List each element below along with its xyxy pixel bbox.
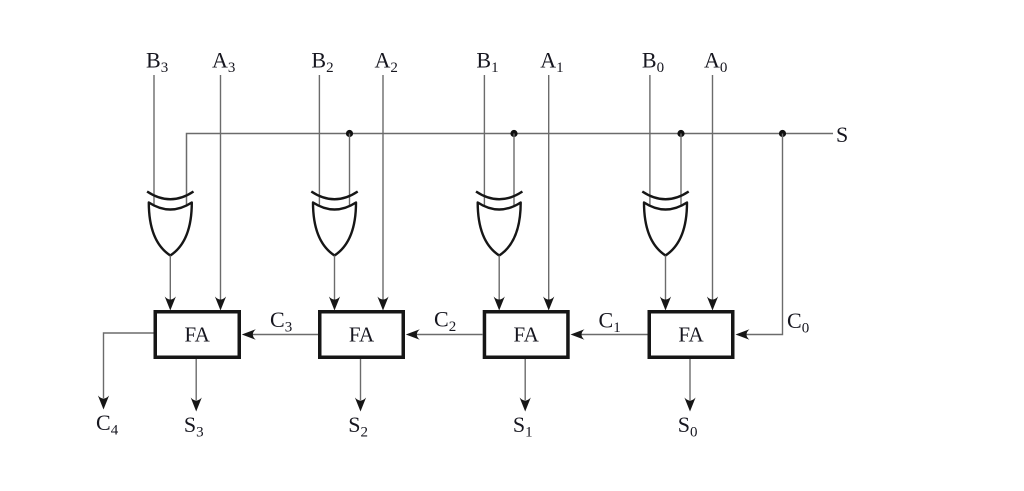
svg-text:B1: B1	[476, 48, 498, 77]
svg-text:FA: FA	[514, 323, 540, 347]
wire C3 carry	[242, 329, 318, 340]
wire S tap drop to XOR bit 2	[349, 134, 351, 206]
wire sum S0 output with arrow	[684, 359, 695, 412]
node C0 tap	[779, 130, 786, 137]
svg-text:S2: S2	[348, 412, 368, 441]
wire XOR3 output with arrow into FA	[165, 256, 176, 311]
full adder FA (bit 2)	[320, 312, 404, 358]
wire S bus (mode select)	[187, 134, 834, 206]
svg-text:C1: C1	[599, 308, 621, 337]
wire C4 carry-out with arrow	[98, 333, 154, 410]
wire B0 input	[649, 75, 651, 206]
svg-text:B2: B2	[311, 48, 333, 77]
xor gate U1 (bit 0)	[642, 192, 688, 200]
wire A0 input with arrow into FA	[707, 75, 718, 311]
wire B2 input	[318, 75, 320, 206]
svg-text:S3: S3	[184, 412, 204, 441]
wire XOR1 output with arrow into FA	[494, 256, 505, 311]
wire sum S3 output with arrow	[191, 359, 202, 412]
svg-text:FA: FA	[349, 323, 375, 347]
svg-text:S1: S1	[513, 412, 533, 441]
wire S tap drop to XOR bit 0	[680, 134, 682, 206]
svg-text:S0: S0	[678, 412, 698, 441]
svg-text:FA: FA	[185, 323, 211, 347]
wire sum S2 output with arrow	[355, 359, 366, 412]
node S tap bit2	[346, 130, 353, 137]
svg-text:S: S	[836, 122, 848, 147]
svg-text:A0: A0	[704, 48, 727, 77]
svg-text:C2: C2	[434, 307, 456, 336]
xor gate U3 (bit 2)	[311, 192, 357, 200]
wire C0 carry-in	[736, 134, 783, 340]
xor gate U2 (bit 1)	[476, 192, 522, 200]
full adder FA (bit 3)	[155, 312, 239, 358]
node S tap bit0	[677, 130, 684, 137]
wire A2 input with arrow into FA	[377, 75, 388, 311]
svg-text:B0: B0	[642, 48, 664, 77]
wire C1 carry	[571, 329, 648, 340]
wire B3 input	[153, 75, 155, 206]
svg-text:B3: B3	[146, 48, 168, 77]
wire A3 input with arrow into FA	[215, 75, 226, 311]
full adder FA (bit 1)	[484, 312, 568, 358]
full adder FA (bit 0)	[649, 312, 733, 358]
svg-text:A1: A1	[540, 48, 563, 77]
wire S tap drop to XOR bit 1	[513, 134, 515, 206]
wire A1 input with arrow into FA	[543, 75, 554, 311]
xor gate U4 (bit 3)	[147, 192, 193, 200]
node S tap bit1	[510, 130, 517, 137]
svg-text:C0: C0	[787, 308, 809, 337]
wire XOR0 output with arrow into FA	[660, 256, 671, 311]
wire B1 input	[483, 75, 485, 206]
svg-text:A3: A3	[212, 48, 235, 77]
wire C2 carry	[406, 329, 483, 340]
svg-text:C4: C4	[96, 410, 119, 439]
wire XOR2 output with arrow into FA	[329, 256, 340, 311]
svg-text:A2: A2	[375, 48, 398, 77]
wire sum S1 output with arrow	[520, 359, 531, 412]
svg-text:C3: C3	[270, 307, 292, 336]
svg-text:FA: FA	[678, 323, 704, 347]
